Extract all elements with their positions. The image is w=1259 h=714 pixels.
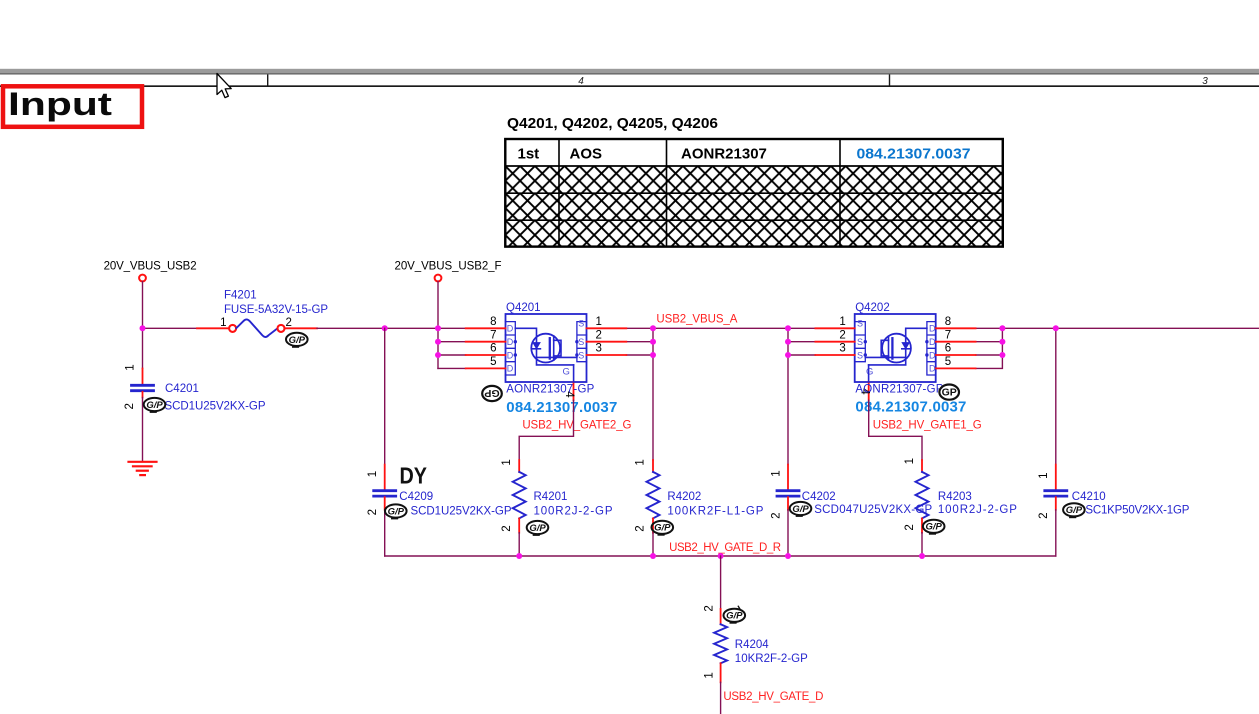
svg-text:G/P: G/P — [289, 335, 306, 346]
capacitor C4202 pin 2 — [787, 497, 789, 510]
resistor R4202 — [635, 459, 764, 556]
svg-text:AONR21307: AONR21307 — [681, 145, 767, 162]
svg-text:GP: GP — [942, 387, 957, 399]
capacitor C4201 pin 1 — [142, 369, 144, 385]
svg-text:100R2J-2-GP: 100R2J-2-GP — [534, 505, 613, 517]
svg-text:D: D — [929, 350, 936, 360]
wire to C4201 pin1 — [142, 328, 144, 368]
fuse F4201 body — [236, 319, 277, 337]
svg-text:D: D — [507, 337, 514, 347]
capacitor C4210 pin 2 — [1055, 497, 1057, 510]
Q4202 pin 3 — [815, 354, 854, 356]
wire bottom rail USB2_HV_GATE_D_R — [385, 555, 1056, 557]
Q4202 pin 1 — [815, 327, 854, 329]
Q4201 mosfet circle — [531, 334, 560, 363]
capacitor C4210 — [1038, 465, 1190, 556]
svg-text:FUSE-5A32V-15-GP: FUSE-5A32V-15-GP — [224, 304, 328, 316]
wire bus Q4202 right to sheet edge — [976, 327, 1259, 329]
svg-text:1st: 1st — [518, 145, 540, 162]
GP flag at C4202 — [790, 502, 812, 516]
transistor Q4202 — [815, 302, 975, 415]
GP flag at fuse F4201 — [286, 333, 308, 347]
Q4201 pin 3 — [587, 354, 627, 356]
GP flag at C4201 — [144, 398, 166, 412]
svg-text:2: 2 — [635, 525, 647, 531]
capacitor C4209 — [367, 328, 512, 556]
svg-text:20V_VBUS_USB2: 20V_VBUS_USB2 — [104, 261, 197, 273]
svg-text:2: 2 — [1038, 512, 1050, 518]
svg-text:G/P: G/P — [792, 504, 809, 515]
Q4201 pin 7 — [466, 341, 506, 343]
svg-text:8: 8 — [490, 316, 496, 328]
fuse F4201 pin 1 — [197, 327, 229, 329]
wire R4203 to rail — [921, 533, 923, 556]
svg-text:G: G — [563, 367, 570, 378]
svg-text:G/P: G/P — [926, 522, 943, 533]
border zone tick left — [267, 75, 268, 86]
wire R4204 to sheet bottom — [720, 682, 722, 714]
Q4202 right pin boxes — [927, 322, 936, 375]
GP flag at R4201 — [527, 521, 549, 535]
resistor R4201 — [501, 459, 613, 556]
Q4202 pin 2 — [815, 341, 854, 343]
svg-text:SC1KP50V2KX-1GP: SC1KP50V2KX-1GP — [1085, 504, 1189, 516]
capacitor C4209 plates — [374, 491, 396, 496]
fuse F4201 — [197, 289, 328, 337]
junction dots on main bus — [140, 325, 1059, 331]
svg-text:2: 2 — [703, 605, 715, 611]
junction dots on rail — [516, 553, 925, 559]
svg-text:100R2J-2-GP: 100R2J-2-GP — [938, 504, 1017, 516]
GP flag at R4202 — [652, 521, 674, 535]
Q4202 pin 8 — [936, 327, 976, 329]
Q4201 left pin boxes — [506, 322, 516, 375]
wire from 20V_VBUS_USB2 terminal down to bus — [142, 282, 144, 329]
node 20V_VBUS_USB2_F terminal circle — [435, 275, 442, 282]
resistor R4203 zigzag body — [916, 472, 929, 519]
wire C4202 to rail — [787, 510, 789, 556]
svg-text:AOS: AOS — [570, 145, 603, 162]
svg-text:D: D — [929, 364, 936, 374]
Q4201 pin 5 — [466, 367, 506, 369]
Q4201 mosfet internals — [515, 328, 577, 382]
Q4202 D pin letters — [929, 324, 936, 374]
Q4201 pin 4 gate — [573, 382, 575, 400]
capacitor C4201 — [124, 328, 266, 461]
svg-text:5: 5 — [490, 356, 496, 368]
fuse F4201 pin2 terminal circle — [278, 325, 285, 332]
svg-text:2: 2 — [596, 329, 602, 341]
svg-text:1: 1 — [839, 316, 845, 328]
wire Q4201 gate to R4201 — [519, 400, 573, 460]
svg-text:S: S — [578, 350, 584, 360]
svg-text:5: 5 — [945, 356, 951, 368]
svg-text:6: 6 — [945, 343, 951, 355]
wire D-bus right of Q4202 — [976, 328, 1003, 368]
wire 20V_VBUS_USB2_F vertical feed — [437, 282, 439, 369]
hatched row 3 — [505, 220, 1003, 246]
GP flag at Q4201 (rotated) — [482, 386, 502, 401]
svg-text:AONR21307-GP: AONR21307-GP — [506, 384, 594, 396]
wire S-bus left of Q4202 — [788, 328, 815, 464]
capacitor C4210 plates — [1045, 491, 1067, 496]
svg-text:2: 2 — [286, 317, 292, 329]
sheet border horizontal line — [0, 85, 1259, 87]
resistor R4201 pin 2 — [518, 518, 520, 532]
wire C4201 to ground — [142, 398, 144, 461]
wire C4210 to rail — [1055, 510, 1057, 556]
Q4201 right pin boxes — [577, 322, 587, 362]
parts table — [505, 139, 1003, 247]
Q4202 pin 7 — [936, 341, 976, 343]
svg-text:2: 2 — [124, 403, 136, 409]
Q4201 pin 8 — [466, 327, 506, 329]
wire R4202 to rail — [652, 533, 654, 556]
Q4201 pin 6 — [466, 354, 506, 356]
capacitor C4201 pin 2 — [142, 392, 144, 398]
svg-text:1: 1 — [770, 470, 782, 476]
svg-text:GP: GP — [484, 387, 499, 399]
svg-text:100KR2F-L1-GP: 100KR2F-L1-GP — [667, 505, 763, 517]
wire bus Q4201 right to Q4202 left — [626, 327, 815, 329]
svg-text:8: 8 — [945, 316, 951, 328]
toolbar gray band — [0, 69, 1259, 75]
resistor R4202 pin 2 — [652, 518, 654, 532]
wire rail to R4204 — [720, 556, 722, 609]
svg-text:Q4201, Q4202, Q4205, Q4206: Q4201, Q4202, Q4205, Q4206 — [507, 115, 718, 132]
Q4201 pin 2 — [587, 341, 627, 343]
svg-text:G/P: G/P — [726, 611, 743, 622]
svg-text:2: 2 — [904, 524, 916, 530]
capacitor C4209 pin 2 — [384, 497, 386, 510]
svg-text:4: 4 — [578, 76, 584, 87]
GP flag at R4204 — [724, 606, 746, 623]
svg-text:USB2_HV_GATE_D: USB2_HV_GATE_D — [723, 691, 823, 703]
svg-text:1: 1 — [1038, 472, 1050, 478]
svg-text:6: 6 — [490, 343, 496, 355]
svg-text:C4201: C4201 — [165, 383, 199, 395]
svg-text:1: 1 — [703, 672, 715, 678]
CHIPS — [466, 302, 976, 416]
node 20V_VBUS_USB2 off-page terminal circle — [139, 275, 146, 282]
svg-text:SCD1U25V2KX-GP: SCD1U25V2KX-GP — [411, 505, 512, 517]
Q4202 mosfet circle — [882, 334, 911, 363]
svg-text:G/P: G/P — [146, 400, 163, 411]
wire R4201 to rail — [518, 533, 520, 556]
svg-text:1: 1 — [904, 458, 916, 464]
svg-text:C4202: C4202 — [802, 491, 836, 503]
svg-text:D: D — [929, 337, 936, 347]
wire bus to C4209 — [384, 328, 386, 464]
table grid lines — [505, 166, 1003, 220]
Q4201 pin 1 — [587, 327, 627, 329]
svg-text:R4202: R4202 — [667, 491, 701, 503]
svg-text:3: 3 — [1202, 76, 1208, 87]
svg-text:3: 3 — [839, 343, 845, 355]
Q4202 S pin letters — [857, 319, 863, 361]
capacitor C4202 — [770, 465, 932, 556]
svg-text:1: 1 — [367, 471, 379, 477]
border zone tick right — [889, 75, 890, 86]
svg-text:R4203: R4203 — [938, 491, 972, 503]
svg-text:2: 2 — [770, 512, 782, 518]
svg-text:G/P: G/P — [1066, 505, 1083, 516]
svg-text:G: G — [866, 367, 873, 378]
svg-text:2: 2 — [839, 329, 845, 341]
GP flag at C4209 — [385, 504, 407, 518]
hatched row 2 — [505, 193, 1003, 220]
svg-text:20V_VBUS_USB2_F: 20V_VBUS_USB2_F — [395, 261, 502, 273]
svg-text:3: 3 — [596, 343, 602, 355]
capacitor C4202 pin 1 — [787, 465, 789, 490]
svg-text:Input: Input — [8, 86, 112, 122]
svg-text:G/P: G/P — [388, 506, 405, 517]
Q4201 S pin letters — [578, 319, 584, 361]
resistor R4201 pin 1 — [518, 460, 520, 472]
svg-text:G/P: G/P — [654, 523, 671, 534]
resistor R4204 pin 2 — [720, 609, 722, 624]
fuse F4201 pin1 terminal circle — [229, 325, 236, 332]
resistor R4203 pin 2 — [921, 518, 923, 532]
Q4202 pin 5 — [936, 367, 976, 369]
Q4202 left pin boxes — [855, 322, 866, 362]
resistor R4204 pin 1 — [720, 663, 722, 682]
svg-text:S: S — [857, 350, 863, 360]
capacitor C4202 plates — [777, 491, 799, 496]
svg-text:S: S — [857, 337, 863, 347]
svg-text:USB2_HV_GATE1_G: USB2_HV_GATE1_G — [873, 419, 982, 431]
wire S-bus right of Q4201 — [626, 328, 653, 460]
svg-text:D: D — [929, 324, 936, 334]
svg-text:084.21307.0037: 084.21307.0037 — [855, 398, 966, 415]
wire bus left segment to fuse — [143, 327, 198, 329]
resistor R4204 zigzag body — [714, 624, 727, 663]
wire stubs left of Q4201 rows 2-4 — [438, 342, 466, 369]
Q4201 D pin letters — [507, 324, 514, 374]
svg-text:084.21307.0037: 084.21307.0037 — [506, 399, 617, 416]
svg-text:2: 2 — [501, 525, 513, 531]
svg-text:F4201: F4201 — [224, 289, 257, 301]
svg-text:2: 2 — [367, 509, 379, 515]
capacitor C4209 pin 1 — [384, 465, 386, 490]
svg-text:G/P: G/P — [529, 523, 546, 534]
resistor R4204 — [703, 556, 808, 714]
svg-text:10KR2F-2-GP: 10KR2F-2-GP — [735, 653, 808, 665]
svg-text:D: D — [507, 350, 514, 360]
resistor R4201 zigzag body — [513, 472, 526, 519]
GP flag at Q4202 — [939, 385, 959, 400]
Q4202 mosfet internals — [865, 328, 927, 382]
svg-text:R4201: R4201 — [534, 491, 568, 503]
Q4201 internal bus dots — [514, 340, 579, 357]
svg-text:D: D — [507, 324, 514, 334]
svg-text:Q4201: Q4201 — [506, 302, 541, 314]
GP flag at C4210 — [1063, 503, 1085, 517]
svg-text:S: S — [578, 319, 584, 329]
svg-text:DY: DY — [400, 462, 428, 488]
svg-text:S: S — [857, 319, 863, 329]
svg-text:C4209: C4209 — [399, 491, 433, 503]
resistor R4203 pin 1 — [921, 460, 923, 472]
svg-text:SCD1U25V2KX-GP: SCD1U25V2KX-GP — [165, 400, 266, 412]
resistor R4202 pin 1 — [652, 460, 654, 472]
Q4202 internal bus dots — [864, 340, 929, 357]
svg-text:7: 7 — [945, 329, 951, 341]
svg-text:084.21307.0037: 084.21307.0037 — [857, 145, 971, 162]
svg-text:AONR21307-GP: AONR21307-GP — [855, 384, 943, 396]
Input title red box — [3, 86, 142, 127]
ground — [129, 462, 157, 475]
Q4201 body rectangle — [506, 314, 587, 382]
svg-text:1: 1 — [220, 317, 226, 329]
capacitor C4210 pin 1 — [1055, 465, 1057, 490]
Q4202 pin 4 gate — [868, 382, 870, 400]
wire C4210 feed from bus — [1055, 328, 1057, 464]
Q4202 pin 6 — [936, 354, 976, 356]
resistor R4203 — [904, 458, 1017, 556]
svg-text:1: 1 — [596, 316, 602, 328]
svg-text:1: 1 — [635, 459, 647, 465]
capacitor C4201 plates — [132, 385, 154, 390]
fuse F4201 pin 2 — [285, 327, 317, 329]
Q4202 body rectangle — [855, 314, 936, 382]
hatched row 1 — [505, 166, 1003, 193]
svg-text:USB2_VBUS_A: USB2_VBUS_A — [656, 314, 737, 326]
transistor Q4201 — [466, 302, 627, 416]
junction dots on pin columns — [435, 339, 1005, 358]
svg-text:1: 1 — [501, 459, 513, 465]
svg-text:USB2_HV_GATE2_G: USB2_HV_GATE2_G — [522, 419, 631, 431]
svg-text:1: 1 — [124, 364, 136, 370]
svg-text:S: S — [578, 337, 584, 347]
GP flag at R4203 — [923, 520, 945, 534]
resistor R4202 zigzag body — [647, 472, 660, 519]
wire Q4202 gate to R4203 — [869, 400, 922, 460]
mouse cursor — [217, 74, 231, 98]
svg-text:R4204: R4204 — [735, 639, 769, 651]
svg-text:C4210: C4210 — [1072, 491, 1106, 503]
svg-text:SCD047U25V2KX-GP: SCD047U25V2KX-GP — [814, 504, 932, 516]
svg-text:7: 7 — [490, 329, 496, 341]
svg-text:USB2_HV_GATE_D_R: USB2_HV_GATE_D_R — [669, 542, 781, 554]
svg-text:Q4202: Q4202 — [855, 302, 890, 314]
svg-text:D: D — [507, 364, 514, 374]
wire C4209 to rail — [384, 510, 386, 556]
wire bus fuse to Q4201 — [317, 327, 466, 329]
BOTTOM — [144, 328, 1190, 714]
